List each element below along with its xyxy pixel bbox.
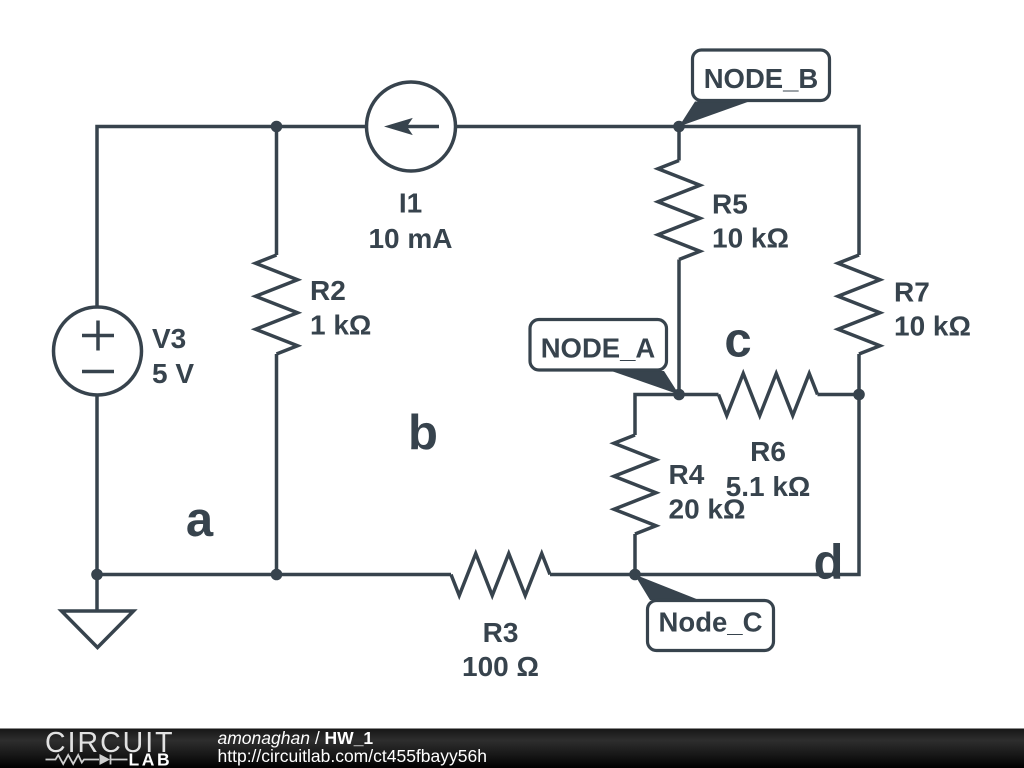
junction dot NODE_A bbox=[673, 389, 685, 401]
junction dot Node_C bbox=[629, 569, 641, 581]
V3 plus sign bbox=[82, 321, 114, 351]
wire R2 branch top lead bbox=[275, 127, 279, 256]
svg-text:R6: R6 bbox=[750, 436, 786, 467]
svg-text:V3: V3 bbox=[152, 323, 186, 354]
junction dot R2 bottom bbox=[271, 569, 283, 581]
svg-text:a: a bbox=[186, 493, 214, 547]
CircuitLab logo mini schematic bbox=[46, 755, 128, 765]
wire top-left: V3 top to I1 left bbox=[97, 127, 367, 307]
wire left-bottom: V3 bottom to ground corner bbox=[95, 395, 99, 575]
svg-text:10 kΩ: 10 kΩ bbox=[712, 223, 789, 254]
callout tail NODE_A bbox=[612, 371, 680, 395]
I1 arrow tail bbox=[406, 125, 439, 129]
svg-text:R2: R2 bbox=[310, 275, 346, 306]
I1 arrow head bbox=[384, 118, 413, 135]
svg-text:NODE_B: NODE_B bbox=[704, 63, 819, 94]
svg-text:10 kΩ: 10 kΩ bbox=[894, 311, 971, 342]
resistor R4 bbox=[614, 435, 656, 534]
svg-text:100 Ω: 100 Ω bbox=[462, 651, 539, 682]
callout tail Node_C bbox=[634, 574, 699, 600]
wire R6 right lead to R7 junction bbox=[818, 393, 860, 397]
svg-text:1 kΩ: 1 kΩ bbox=[310, 310, 371, 341]
junction dot R2 top bbox=[271, 121, 283, 133]
resistor R6 bbox=[719, 374, 818, 416]
junction dot ground bbox=[91, 569, 103, 581]
voltage source V3 circle bbox=[54, 307, 142, 395]
wire NODE_A to R4 top lead bbox=[635, 395, 679, 436]
footer bar bbox=[0, 729, 1024, 768]
callout tail NODE_B bbox=[679, 102, 749, 127]
svg-text:I1: I1 bbox=[399, 188, 422, 219]
svg-text:R7: R7 bbox=[894, 277, 930, 308]
svg-text:b: b bbox=[408, 406, 438, 460]
svg-text:LAB: LAB bbox=[129, 750, 173, 768]
callout box NODE_B bbox=[693, 50, 830, 101]
svg-text:10 mA: 10 mA bbox=[368, 223, 452, 254]
svg-text:http://circuitlab.com/ct455fba: http://circuitlab.com/ct455fbayy56h bbox=[218, 746, 487, 766]
CircuitLab logo diode bbox=[100, 754, 111, 765]
current source I1 circle bbox=[367, 82, 456, 171]
wire bottom-right: R3 right to lower-right corner up to R6/R7 junction bbox=[550, 354, 859, 575]
svg-text:c: c bbox=[724, 314, 751, 368]
wire R4 bottom lead to Node_C bbox=[633, 534, 637, 575]
resistor R2 bbox=[256, 255, 298, 354]
svg-text:R3: R3 bbox=[483, 617, 519, 648]
junction dot R6/R7 bbox=[853, 389, 865, 401]
callout box Node_C bbox=[648, 601, 774, 651]
wire R5 bottom lead to NODE_A bbox=[677, 260, 681, 395]
wire bottom: ground corner to R3 left bbox=[97, 573, 451, 577]
svg-text:R4: R4 bbox=[669, 459, 705, 490]
resistor R7 bbox=[838, 255, 880, 354]
wire R2 branch bottom lead bbox=[275, 354, 279, 575]
wire NODE_A to R6 left lead bbox=[679, 393, 719, 397]
svg-text:Node_C: Node_C bbox=[659, 607, 763, 638]
svg-text:amonaghan / HW_1: amonaghan / HW_1 bbox=[218, 728, 374, 748]
svg-text:d: d bbox=[814, 536, 844, 590]
callout box NODE_A bbox=[530, 320, 667, 371]
ground symbol bbox=[62, 575, 134, 648]
svg-text:NODE_A: NODE_A bbox=[541, 333, 656, 364]
svg-text:R5: R5 bbox=[712, 189, 748, 220]
V3 minus sign bbox=[82, 370, 114, 374]
junction dot NODE_B bbox=[673, 121, 685, 133]
wire top-right: I1 right to R7 top bbox=[455, 127, 859, 256]
svg-text:5.1 kΩ: 5.1 kΩ bbox=[726, 471, 811, 502]
svg-text:5 V: 5 V bbox=[152, 358, 194, 389]
resistor R3 bbox=[451, 554, 550, 596]
wire R5 top lead from NODE_B bbox=[677, 127, 681, 161]
resistor R5 bbox=[658, 161, 700, 260]
